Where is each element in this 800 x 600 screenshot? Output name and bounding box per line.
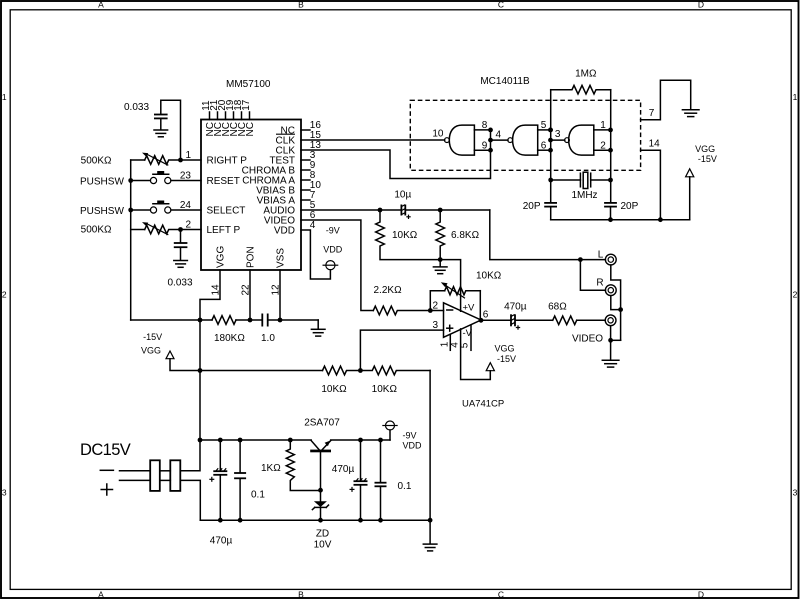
ground at pin 7 <box>682 110 699 117</box>
plus mark 470u output side <box>350 487 355 492</box>
potentiometer R2 500K zigzag <box>145 225 181 234</box>
wire bus to pot R2 <box>131 229 145 231</box>
pin 11 stub top <box>209 112 211 120</box>
plus mark 470u input <box>209 477 214 482</box>
node osc right crystal dot <box>608 178 613 183</box>
capacitor 20P right <box>604 203 617 220</box>
wire pin 7 MC14011B to ground <box>641 80 691 119</box>
svg-text:VDD: VDD <box>323 245 343 255</box>
wire oscillator ground rail <box>551 219 690 221</box>
wire op-amp -V to VGG <box>461 329 491 380</box>
wire cap 0.033 to ground <box>160 119 162 129</box>
potentiometer R2 arrow <box>142 222 168 235</box>
node PON rail dot <box>248 318 253 323</box>
svg-text:1KΩ: 1KΩ <box>261 463 281 474</box>
power symbol VGG -15V left triangle <box>166 351 174 359</box>
pin 21 stub top <box>217 112 219 120</box>
node gate2 tie mid dot <box>548 138 553 143</box>
svg-text:2: 2 <box>600 140 606 151</box>
svg-text:SELECT: SELECT <box>207 205 246 216</box>
connector plug rect 2 <box>170 460 180 491</box>
node audio jack split dot <box>578 257 583 262</box>
svg-text:20P: 20P <box>523 201 541 212</box>
potentiometer 10K feedback zigzag <box>445 287 481 295</box>
wire bus to pot R1 <box>131 159 145 161</box>
node 470u2 top dot <box>358 438 363 443</box>
NAND gate G2 body <box>513 125 538 155</box>
capacitor 1.0 plates <box>262 314 267 327</box>
transistor Q1 2SA707 <box>310 441 331 491</box>
zener diode ZD <box>312 490 328 520</box>
NAND gate G2 bubble <box>508 138 513 143</box>
wire gate3 input 1 stub <box>594 129 611 131</box>
node 1K top rail dot <box>288 438 293 443</box>
node 470u bottom dot <box>218 518 223 523</box>
svg-text:1MΩ: 1MΩ <box>575 69 597 80</box>
svg-text:470µ: 470µ <box>210 536 233 547</box>
svg-text:-9V: -9V <box>403 430 417 440</box>
node gate3 input2 dot <box>608 148 613 153</box>
wire 68 ohm to video jack <box>577 319 605 321</box>
svg-text:L: L <box>598 250 604 261</box>
svg-text:10V: 10V <box>314 539 332 550</box>
svg-text:2: 2 <box>793 290 798 300</box>
connector plug rect 1 <box>150 460 160 491</box>
op-amp minus input mark <box>447 309 453 311</box>
node bus switch2 dot <box>128 208 133 213</box>
svg-text:0.033: 0.033 <box>167 277 192 288</box>
node 0.1b top dot <box>378 438 383 443</box>
node osc rail pin14 dot <box>658 217 663 222</box>
capacitor 0.033 C2 plates <box>174 243 188 247</box>
svg-text:6: 6 <box>541 140 547 151</box>
node 470u top dot <box>218 438 223 443</box>
wire R jack ground path <box>611 296 621 310</box>
plus mark 10u <box>406 215 410 219</box>
node gate1 tie mid dot <box>488 138 493 143</box>
electrolytic capacitor 470u output <box>511 314 515 326</box>
wire gate2 output to gate1 inputs <box>491 139 509 141</box>
svg-text:C: C <box>498 589 504 599</box>
ground at bottom rail <box>423 544 437 551</box>
wire node to ground stem <box>439 260 441 267</box>
svg-text:4: 4 <box>496 130 502 141</box>
svg-text:0.033: 0.033 <box>124 102 149 113</box>
pin 7 stub <box>301 199 310 201</box>
svg-text:6: 6 <box>483 309 489 320</box>
potentiometer 10K feedback arrow <box>441 282 465 298</box>
wire between connector halves plus <box>160 479 171 481</box>
op-amp plus input mark <box>447 325 453 331</box>
wire pot R2 to pin 2 <box>181 229 202 231</box>
svg-text:+V: +V <box>463 302 476 313</box>
electrolytic capacitor 10u <box>401 205 405 216</box>
wire pin 22 PON to rail <box>249 270 251 320</box>
svg-text:2.2KΩ: 2.2KΩ <box>374 285 403 296</box>
svg-text:5: 5 <box>541 120 547 131</box>
node LR ground junction dot <box>618 307 623 312</box>
wire pin 14 VGG to rail <box>200 270 220 320</box>
svg-text:VSS: VSS <box>276 248 287 268</box>
svg-text:R: R <box>596 278 603 289</box>
svg-text:3: 3 <box>2 488 7 498</box>
svg-text:10KΩ: 10KΩ <box>476 270 502 281</box>
node audio 10K dot <box>378 208 383 213</box>
svg-text:1: 1 <box>600 120 606 131</box>
wire CLK13 path to gate1 inputs <box>301 150 491 179</box>
pin 19 stub top <box>233 112 235 120</box>
pin 3 stub <box>301 159 310 161</box>
svg-text:470µ: 470µ <box>504 301 527 312</box>
wire LR ground to video ground <box>611 339 621 341</box>
svg-text:ZD: ZD <box>316 529 329 540</box>
svg-text:-15V: -15V <box>497 354 516 364</box>
wire VIDEO pin6 riser <box>301 220 373 311</box>
capacitor 0.1 output side <box>375 440 387 520</box>
svg-text:1: 1 <box>2 92 7 102</box>
dashed box MC14011B <box>410 100 640 170</box>
node 10K chain junction dot <box>358 368 363 373</box>
svg-text:C: C <box>498 0 504 9</box>
node osc left crystal dot <box>548 178 553 183</box>
svg-text:VDD: VDD <box>403 441 423 451</box>
wire gate3 output to gate2 inputs <box>551 139 565 141</box>
wire gate2 input 5 stub <box>538 129 551 131</box>
potentiometer R1 500K zigzag <box>145 156 181 165</box>
svg-text:D: D <box>698 0 704 9</box>
push switch SW2 <box>150 201 171 214</box>
resistor 10K vertical zigzag <box>376 210 441 260</box>
svg-text:10: 10 <box>432 129 444 140</box>
node gate1 tie top dot <box>488 127 493 132</box>
ground under C2 <box>174 261 188 268</box>
capacitor 0.1 input <box>234 440 246 520</box>
wire 180K to cap 1.0 <box>236 319 262 321</box>
svg-text:10KΩ: 10KΩ <box>392 230 418 241</box>
vertical bus x200 wire <box>199 320 201 440</box>
wire feedback pot right leg <box>479 291 481 321</box>
svg-text:6.8KΩ: 6.8KΩ <box>451 230 480 241</box>
node 0.1 top dot <box>238 438 243 443</box>
node op-amp pin2 dot <box>428 308 433 313</box>
wire gate1 inputs tie <box>490 130 492 150</box>
RCA jack VIDEO <box>605 315 616 326</box>
NAND gate G3 bubble <box>565 138 570 143</box>
node gate3 input1 dot <box>608 127 613 132</box>
node gate2 tie top dot <box>548 127 553 132</box>
node audio 6.8K dot <box>438 208 443 213</box>
svg-text:2SA707: 2SA707 <box>304 418 340 429</box>
NAND gate G1 bubble <box>445 138 450 143</box>
RCA jack L <box>605 254 616 265</box>
wire bus to switch1 <box>131 180 151 182</box>
svg-text:VDD: VDD <box>274 226 295 237</box>
node pin2 junction dot <box>178 227 183 232</box>
svg-text:2: 2 <box>432 300 438 311</box>
svg-text:2: 2 <box>2 290 7 300</box>
svg-text:UA741CP: UA741CP <box>462 398 504 409</box>
node rail bus corner dot <box>198 438 203 443</box>
resistor 6.8K vertical zigzag <box>436 210 445 260</box>
svg-text:A: A <box>98 0 104 9</box>
node transistor base zener dot <box>318 488 323 493</box>
node 470u2 bottom dot <box>358 518 363 523</box>
wire cap C2 to ground <box>180 248 182 260</box>
wire gate1 input 8 stub <box>474 129 490 131</box>
wire gate3 input 2 stub <box>594 149 611 151</box>
NAND gate G1 body <box>449 125 474 155</box>
wire gate2 input 6 stub <box>538 149 551 151</box>
left bus vertical wire <box>130 160 132 320</box>
svg-text:10KΩ: 10KΩ <box>321 384 347 395</box>
svg-text:3: 3 <box>432 320 438 331</box>
pin 9 stub <box>301 169 310 171</box>
power port -9V VDD symbol <box>382 421 397 440</box>
wire pin2 node to cap C2 <box>180 230 182 243</box>
svg-text:B: B <box>298 589 304 599</box>
wire riser chain to op-amp pin3 <box>360 330 443 370</box>
wire rail to ground stem <box>317 320 319 329</box>
resistor 2.2K zigzag <box>373 306 443 315</box>
svg-text:VGG: VGG <box>495 344 515 354</box>
wire video jack ground <box>610 326 612 341</box>
node bus switch1 dot <box>128 178 133 183</box>
resistor 1M zigzag <box>551 85 611 94</box>
svg-text:VGG: VGG <box>141 345 161 355</box>
wire bus to switch2 <box>131 209 151 211</box>
wire CLK15 to gate1 output <box>301 139 445 141</box>
pin 20 stub top <box>225 112 227 120</box>
svg-text:PON: PON <box>246 246 257 268</box>
ground under 6.8K <box>433 267 447 274</box>
wire 470u to 68 ohm <box>516 319 553 321</box>
svg-text:DC15V: DC15V <box>80 441 131 459</box>
svg-text:8: 8 <box>482 120 488 131</box>
svg-text:VGG: VGG <box>216 246 227 268</box>
op-amp offset pin 1 stub <box>449 334 451 350</box>
node gate1 tie bottom dot <box>488 148 493 153</box>
wire audio to jacks drop <box>490 210 606 260</box>
svg-text:1.0: 1.0 <box>261 333 275 344</box>
node rail bus junction dot <box>198 318 203 323</box>
svg-text:180KΩ: 180KΩ <box>214 333 245 344</box>
node 6.8K bottom ground dot <box>438 257 443 262</box>
op-amp U2 triangle <box>444 303 482 338</box>
power symbol VGG -15V right triangle <box>686 169 694 177</box>
node zener bottom rail dot <box>318 518 323 523</box>
wire VGG symbol right stem <box>689 177 691 220</box>
wire top power rail right segment <box>331 439 390 441</box>
svg-text:0.1: 0.1 <box>251 489 265 500</box>
node 0.1 bottom dot <box>238 518 243 523</box>
svg-text:LEFT P: LEFT P <box>207 225 241 236</box>
node osc rail crystal dot <box>608 217 613 222</box>
svg-text:A: A <box>98 589 104 599</box>
wire AUDIO pin5 <box>301 209 401 211</box>
node pin1 junction dot <box>178 158 183 163</box>
wire bottom ground rail <box>200 519 430 521</box>
svg-text:3: 3 <box>793 488 798 498</box>
node gate2 tie bottom dot <box>548 148 553 153</box>
svg-text:3: 3 <box>555 129 561 140</box>
svg-text:RESET: RESET <box>207 176 240 187</box>
IC U1 MM57100 body <box>201 120 301 271</box>
pin 16 stub <box>301 129 310 131</box>
svg-text:500KΩ: 500KΩ <box>81 225 112 236</box>
svg-text:24: 24 <box>180 200 192 211</box>
pin 10 stub <box>301 189 310 191</box>
overline for CLK 15 <box>276 133 295 135</box>
svg-text:-15V: -15V <box>698 154 717 164</box>
svg-text:5: 5 <box>460 342 471 348</box>
svg-text:9: 9 <box>482 140 488 151</box>
electrolytic capacitor 470u input <box>213 440 227 520</box>
pin 18 stub top <box>241 112 243 120</box>
node video ground dot <box>608 338 613 343</box>
power port -9V VDD symbol near IC <box>323 261 339 270</box>
plus sign DC input <box>101 484 112 495</box>
resistor 10K (a) zigzag <box>323 366 361 375</box>
wire top power rail left segment <box>200 439 311 441</box>
resistor 68 ohm zigzag <box>553 316 577 325</box>
node 0.1b bottom dot <box>378 518 383 523</box>
wire VDD pin4 path <box>301 230 330 279</box>
resistor 180K zigzag <box>212 316 236 325</box>
wire video ground stem <box>610 340 612 360</box>
wire L R audio branch <box>580 260 605 291</box>
node ground rail right dot <box>428 518 433 523</box>
plus mark 470u output <box>516 325 520 329</box>
wire connector minus to top rail <box>180 440 200 471</box>
svg-text:RIGHT P: RIGHT P <box>207 156 248 167</box>
resistor 1K vertical zigzag <box>286 440 320 491</box>
push switch SW1 <box>150 171 171 184</box>
svg-text:470µ: 470µ <box>332 464 355 475</box>
wire pin 12 VSS to rail <box>279 270 281 320</box>
minus sign DC input <box>100 469 113 471</box>
power symbol VGG -15V op-amp triangle <box>486 363 494 371</box>
wire output to 470u <box>481 319 511 321</box>
wire connector plus to bottom rail <box>180 480 200 520</box>
RCA jack R <box>605 285 616 296</box>
wire DC minus lead <box>120 470 151 472</box>
wire chain right end down to ground rail <box>429 371 431 521</box>
svg-text:10µ: 10µ <box>394 190 411 201</box>
capacitor 20P left <box>544 203 557 220</box>
wire pin 14 MC14011B <box>641 150 661 220</box>
wire L jack ground path <box>611 265 621 340</box>
svg-text:68Ω: 68Ω <box>548 301 567 312</box>
wire gate1 input 9 stub <box>474 149 490 151</box>
wire DC plus lead <box>120 479 151 481</box>
wire switch1 to pin 23 <box>171 180 201 182</box>
svg-text:NC: NC <box>245 122 256 136</box>
wire ground node to op-amp +V <box>440 260 460 312</box>
op-amp offset pin 5 stub <box>470 325 472 350</box>
svg-text:VGG: VGG <box>695 144 715 154</box>
wire switch2 to pin 24 <box>171 209 201 211</box>
ground at rail 320 <box>311 329 325 336</box>
svg-text:MC14011B: MC14011B <box>480 76 530 87</box>
wire 10u to audio node <box>406 209 490 211</box>
svg-text:1: 1 <box>793 92 798 102</box>
wire rail 320 left segment <box>131 319 212 321</box>
capacitor 0.033 C1 plates <box>154 115 168 119</box>
svg-text:1MHz: 1MHz <box>571 190 597 201</box>
svg-text:B: B <box>298 0 304 9</box>
svg-text:D: D <box>698 589 704 599</box>
svg-text:-15V: -15V <box>143 332 162 342</box>
svg-text:17: 17 <box>241 99 252 111</box>
node VSS rail dot <box>278 318 283 323</box>
ground under C1 <box>154 130 168 137</box>
svg-text:14: 14 <box>649 138 661 149</box>
svg-text:20P: 20P <box>621 201 639 212</box>
svg-text:500KΩ: 500KΩ <box>81 156 112 167</box>
svg-text:0.1: 0.1 <box>398 481 412 492</box>
wire feedback pot left leg <box>430 291 444 311</box>
svg-text:PUSHSW: PUSHSW <box>80 206 124 217</box>
wire 1M left vertical <box>550 90 552 203</box>
wire between connector halves minus <box>160 470 171 472</box>
svg-text:PUSHSW: PUSHSW <box>80 176 124 187</box>
wire ground rail stem down <box>429 520 431 543</box>
node osc left row1 dot <box>548 127 553 132</box>
wire pot1 wiper to cap 0.033 <box>161 100 181 160</box>
electrolytic capacitor 470u output side <box>354 440 368 520</box>
crystal X1 1MHz <box>551 172 611 188</box>
wire 1M right vertical <box>610 90 612 203</box>
wire VGG symbol stem <box>170 359 323 371</box>
svg-text:MM57100: MM57100 <box>226 79 271 90</box>
pin 17 stub top <box>249 112 251 120</box>
resistor 10K (b) zigzag <box>360 366 430 375</box>
node bus VGG row dot <box>198 368 203 373</box>
svg-text:10KΩ: 10KΩ <box>372 384 398 395</box>
wire cap 1.0 to ground <box>269 319 319 321</box>
NAND gate G3 body <box>569 125 594 155</box>
ground under video jack <box>602 360 619 367</box>
svg-text:7: 7 <box>649 108 655 119</box>
potentiometer R1 arrow <box>142 153 168 166</box>
node op-amp output dot <box>479 318 484 323</box>
svg-text:VIDEO: VIDEO <box>572 333 603 344</box>
wire pot R1 to pin 1 <box>181 159 202 161</box>
svg-text:-9V: -9V <box>326 226 340 236</box>
pin 8 stub <box>301 179 310 181</box>
